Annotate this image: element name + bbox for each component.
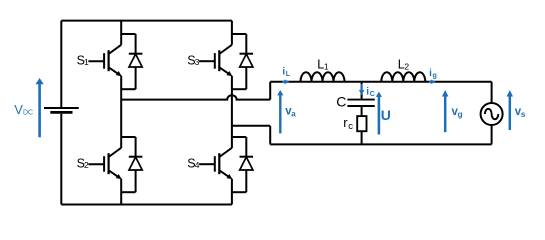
label S3 xyxy=(187,53,199,67)
DC source VDC battery plates xyxy=(44,108,79,112)
wire capacitor to resistor xyxy=(361,107,363,116)
wire filter top rail xyxy=(270,81,491,83)
svg-text:g: g xyxy=(458,110,463,119)
svg-text:L: L xyxy=(286,71,291,78)
label VDC xyxy=(14,102,33,117)
label S1 xyxy=(77,53,89,67)
wire output drop to filter bottom xyxy=(269,126,271,145)
transistor S3 xyxy=(199,45,232,76)
svg-text:1: 1 xyxy=(84,57,89,67)
diode D3 xyxy=(232,34,253,89)
transistor S1 xyxy=(88,45,121,76)
diode D4 xyxy=(232,137,253,192)
label ig xyxy=(429,68,437,79)
wire output riser to filter top xyxy=(269,82,271,100)
VDC reference arrow xyxy=(36,78,44,137)
svg-text:C: C xyxy=(370,91,375,98)
svg-text:2: 2 xyxy=(84,160,89,170)
svg-text:2: 2 xyxy=(404,61,409,71)
wire leg2 output xyxy=(232,125,270,127)
svg-text:c: c xyxy=(348,121,353,132)
wire resistor to bottom rail xyxy=(361,131,363,144)
wire battery bottom lead xyxy=(60,114,62,205)
label va xyxy=(285,106,296,119)
ig current arrow xyxy=(429,80,436,85)
diode D1 xyxy=(121,34,142,89)
svg-text:U: U xyxy=(381,107,391,123)
label S4 xyxy=(187,156,199,170)
label S2 xyxy=(77,156,89,170)
iC current arrow xyxy=(359,84,364,95)
label vs xyxy=(515,106,526,119)
wire leg2 vertical xyxy=(231,21,233,205)
svg-text:s: s xyxy=(521,110,526,119)
label L2 xyxy=(398,58,410,72)
wire leg1 vertical xyxy=(120,21,122,205)
vg voltage arrow xyxy=(442,90,448,132)
wire grid source top lead xyxy=(491,82,493,103)
svg-text:DC: DC xyxy=(23,110,33,117)
wire grid source bottom lead xyxy=(491,125,493,144)
diode D2 xyxy=(121,137,142,192)
iL current arrow xyxy=(282,80,290,85)
transistor S2 xyxy=(88,148,121,179)
wire capacitor branch top xyxy=(361,82,363,99)
label vg xyxy=(452,106,463,119)
svg-text:C: C xyxy=(336,94,346,110)
bottom DC bus wire xyxy=(61,204,232,206)
resistor rc xyxy=(357,116,366,131)
wire filter bottom rail xyxy=(270,143,491,145)
label rc xyxy=(343,115,353,132)
wire leg1 output with crossover hop xyxy=(121,95,270,99)
label iC xyxy=(366,86,375,97)
svg-text:g: g xyxy=(433,72,437,79)
svg-text:4: 4 xyxy=(195,160,200,170)
wire battery top lead xyxy=(60,21,62,108)
U voltage arrow xyxy=(376,92,382,135)
capacitor C xyxy=(347,100,374,106)
label L1 xyxy=(317,58,329,72)
svg-text:a: a xyxy=(291,110,296,119)
top DC bus wire xyxy=(61,20,232,22)
transistor S4 xyxy=(199,148,232,179)
va voltage arrow xyxy=(277,90,283,133)
label iL xyxy=(282,66,290,77)
svg-text:V: V xyxy=(14,102,23,117)
inductor L2 xyxy=(381,72,425,82)
vs voltage arrow xyxy=(507,90,513,130)
inductor L1 xyxy=(301,72,345,82)
AC grid source vs xyxy=(481,103,503,125)
svg-text:3: 3 xyxy=(195,57,200,67)
svg-text:1: 1 xyxy=(324,61,329,71)
